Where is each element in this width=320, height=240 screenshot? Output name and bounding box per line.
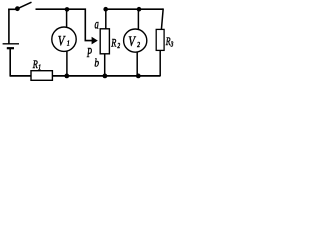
label a (terminal)	[95, 16, 99, 32]
wire: V2 bottom lead	[136, 52, 138, 76]
svg-text:a: a	[95, 16, 99, 32]
potentiometer R2 box	[100, 29, 109, 54]
label R3	[165, 36, 173, 49]
node: junction dot at V1 top	[65, 7, 70, 12]
svg-text:R: R	[110, 37, 116, 50]
wire: right vertical (to R3)	[161, 9, 163, 30]
wire: V1 top lead	[66, 9, 68, 27]
switch S pivot junction	[15, 6, 20, 11]
svg-text:P: P	[86, 46, 92, 60]
wire: R2 top lead (terminal a)	[105, 9, 107, 29]
voltmeter V1 circle	[52, 27, 76, 51]
label P (wiper)	[86, 46, 92, 60]
resistor R1 box	[31, 71, 52, 81]
background	[0, 0, 184, 81]
wire: R2 bottom lead (terminal b)	[104, 54, 106, 76]
node: junction dot at R2 bottom	[103, 74, 108, 79]
switch S blade	[19, 2, 32, 8]
label R1	[32, 59, 41, 72]
wire: V2 top lead	[137, 9, 139, 30]
node: junction dot at R2 top	[103, 7, 108, 12]
label b (terminal)	[94, 57, 99, 70]
node: junction dot at V2 bottom	[136, 74, 141, 79]
label V2 (meter face)	[128, 33, 140, 49]
wire: V1 bottom lead	[66, 51, 68, 76]
wire: top rail right section	[104, 8, 164, 10]
wire: R3 bottom lead	[159, 50, 161, 76]
wiper arrow of potentiometer R2	[92, 37, 98, 45]
svg-text:1: 1	[67, 40, 70, 48]
wire: top rail left section	[36, 9, 93, 40]
svg-text:b: b	[94, 57, 99, 70]
node: junction dot at V1 bottom	[64, 74, 69, 79]
wire: left vertical upper (battery top lead)	[8, 9, 10, 44]
svg-text:3: 3	[170, 41, 173, 49]
svg-text:1: 1	[38, 64, 41, 72]
battery: lower lead	[9, 49, 11, 77]
battery: short plate	[7, 47, 14, 49]
wire: bottom rail	[10, 75, 161, 77]
svg-text:R: R	[32, 59, 38, 72]
label R2	[110, 37, 120, 50]
node: junction dot at V2 top	[137, 7, 142, 12]
svg-text:R: R	[165, 36, 171, 49]
battery: long plate	[3, 43, 19, 45]
wire: top-left horizontal to switch pivot	[8, 8, 16, 10]
voltmeter V2 circle	[124, 29, 147, 52]
resistor R3 box	[156, 29, 164, 50]
label V1 (meter face)	[58, 33, 70, 49]
